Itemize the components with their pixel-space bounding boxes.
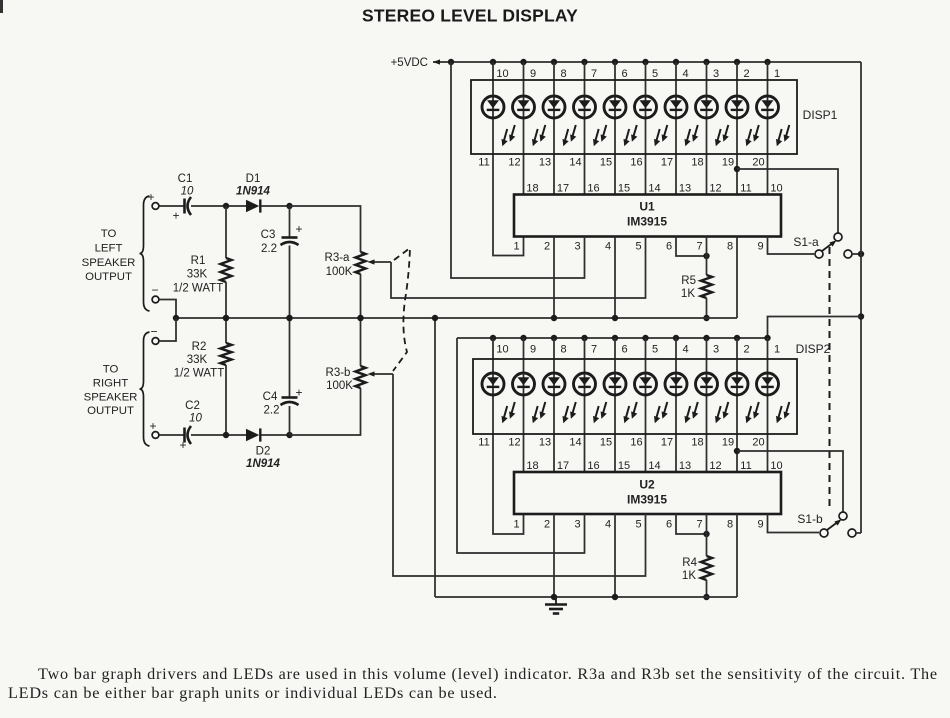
svg-text:12: 12 <box>709 183 721 195</box>
svg-text:−: − <box>150 325 157 339</box>
svg-text:15: 15 <box>600 157 612 169</box>
svg-text:19: 19 <box>722 157 734 169</box>
wire left + input to C1 <box>159 205 184 207</box>
wire DISP2 column 5 / pin 16 to U2 pin 14 <box>645 338 647 472</box>
wire U2 pin5 signal from R3-b wiper <box>393 374 646 576</box>
junction S1-a / +5V riser <box>858 251 864 257</box>
wire C3 node to R3-a top <box>290 206 361 252</box>
svg-text:20: 20 <box>752 437 764 449</box>
svg-text:Two bar graph drivers and LEDs: Two bar graph drivers and LEDs are used … <box>38 665 938 683</box>
capacitor C3 wire <box>289 206 291 238</box>
resistor R4 <box>701 556 712 580</box>
svg-text:2: 2 <box>544 519 550 531</box>
svg-text:SPEAKER: SPEAKER <box>84 392 138 404</box>
text block TO LEFT SPEAKER OUTPUT <box>82 228 136 283</box>
switch S1-a upper contact <box>834 233 842 241</box>
svg-text:100K: 100K <box>326 266 353 278</box>
svg-text:+: + <box>179 438 186 452</box>
wire DISP2 +5V bus <box>457 337 768 339</box>
junction C1 / R1 <box>223 203 229 209</box>
junction +5V bus / DISP1 anode col 8 <box>551 59 557 65</box>
junction R5 / ground bus <box>703 315 709 321</box>
svg-text:10: 10 <box>770 183 782 195</box>
svg-text:14: 14 <box>648 183 660 195</box>
svg-text:OUTPUT: OUTPUT <box>85 271 132 283</box>
wire U2 pin9 to S1-b pole <box>768 514 820 533</box>
wire U2 pin3 to DISP2 bus (left riser) <box>457 338 585 553</box>
junction DISP2 bus col 6 <box>612 335 618 341</box>
svg-text:DISP2: DISP2 <box>796 342 831 356</box>
junction +5V bus / DISP1 anode col 5 <box>642 59 648 65</box>
wire S1-a right contact to +5V riser <box>852 253 861 255</box>
wire U1 pin8 to ground bus end <box>736 237 738 319</box>
svg-text:19: 19 <box>722 437 734 449</box>
svg-text:15: 15 <box>600 437 612 449</box>
svg-text:10: 10 <box>496 68 508 80</box>
switch S1-a pole contact <box>815 250 823 258</box>
svg-text:OUTPUT: OUTPUT <box>87 405 134 417</box>
terminal right - input <box>152 338 159 345</box>
svg-text:10: 10 <box>770 460 782 472</box>
wire S1-b right contact to +5V riser <box>856 532 861 534</box>
svg-text:16: 16 <box>630 437 642 449</box>
svg-text:C3: C3 <box>261 229 276 241</box>
svg-text:11: 11 <box>478 437 489 449</box>
junction DISP2 bus col 2 <box>734 335 740 341</box>
svg-text:+5VDC: +5VDC <box>391 57 428 69</box>
capacitor C2 <box>183 428 186 443</box>
diode D1 <box>246 200 259 212</box>
wire DISP2 pin19 to S1-b top contact <box>737 451 843 512</box>
junction +5V bus / DISP1 anode col 7 <box>581 59 587 65</box>
svg-text:2.2: 2.2 <box>264 405 280 417</box>
junction +5V bus / DISP1 anode col 10 <box>490 59 496 65</box>
junction +5V bus / DISP1 anode col 6 <box>612 59 618 65</box>
svg-text:8: 8 <box>560 68 566 80</box>
svg-text:TO: TO <box>103 364 119 376</box>
svg-text:3: 3 <box>574 241 580 253</box>
junction DISP2 bus col 5 <box>642 335 648 341</box>
wire DISP1 column 7 / pin 14 to U1 pin 16 <box>584 62 586 195</box>
pin numbers U1 bottom (1..9) <box>513 241 763 253</box>
LED DISP2-2 <box>513 373 546 423</box>
svg-text:17: 17 <box>557 460 569 472</box>
wire +5V top bus <box>433 61 861 63</box>
svg-text:33K: 33K <box>187 354 208 366</box>
switch S1-b pole contact <box>820 529 828 537</box>
wire DISP1 column 4 / pin 17 to U1 pin 13 <box>675 62 677 195</box>
junction DISP2 bus col 9 <box>520 335 526 341</box>
switch S1-a right contact <box>844 250 852 258</box>
wire C4 node to R3-b bottom <box>290 388 361 435</box>
capacitor C4 wire <box>289 318 291 398</box>
svg-text:9: 9 <box>757 519 763 531</box>
wire right + input to C2 <box>159 434 184 436</box>
wire DISP2 column 6 / pin 15 to U2 pin 15 <box>614 338 616 472</box>
svg-text:10: 10 <box>496 344 508 356</box>
junction R3-a / common bus <box>357 315 363 321</box>
junction common / ground riser <box>432 315 438 321</box>
svg-text:+: + <box>149 419 156 433</box>
junction DISP2 bus col 10 <box>490 335 496 341</box>
resistor R1 <box>225 206 227 258</box>
IC U2 outline <box>514 472 781 514</box>
junction DISP2 bus col 1 <box>764 335 770 341</box>
wire U2 pin4 to ground bus <box>614 514 616 597</box>
junction DISP2 pin 19 / S1-b feed <box>734 448 740 454</box>
svg-text:9: 9 <box>530 344 536 356</box>
junction U2 pin7 / pin6 / R4 <box>703 531 709 537</box>
wire D1 to C3 node <box>261 205 290 207</box>
wire DISP1 pin19 to S1-a top contact <box>737 169 838 233</box>
LED DISP1-1 <box>482 96 515 146</box>
svg-text:IM3915: IM3915 <box>627 215 667 229</box>
svg-text:12: 12 <box>508 437 520 449</box>
svg-text:1: 1 <box>513 241 519 253</box>
brace right channel <box>140 332 150 446</box>
text block TO RIGHT SPEAKER OUTPUT <box>84 364 138 418</box>
wire U1 pin4 to ground bus <box>614 237 616 319</box>
LED DISP1-8 <box>696 96 729 146</box>
svg-text:2: 2 <box>544 241 550 253</box>
svg-text:5: 5 <box>652 344 658 356</box>
svg-text:10: 10 <box>181 186 194 198</box>
capacitor C4 <box>282 396 298 399</box>
svg-text:−: − <box>151 283 158 297</box>
wire U1 pin6 to pin7 <box>676 237 707 257</box>
svg-text:R2: R2 <box>192 341 207 353</box>
svg-text:1N914: 1N914 <box>246 458 280 470</box>
svg-text:20: 20 <box>752 157 764 169</box>
corner scan mark <box>0 0 3 13</box>
svg-text:14: 14 <box>648 460 660 472</box>
switch S1-b arm <box>827 521 839 530</box>
svg-text:RIGHT: RIGHT <box>93 378 128 390</box>
svg-text:+: + <box>295 386 302 400</box>
svg-text:18: 18 <box>691 157 703 169</box>
svg-text:18: 18 <box>526 183 538 195</box>
wire +5V right riser <box>860 62 862 533</box>
svg-text:LEDs can be either bar graph u: LEDs can be either bar graph units or in… <box>8 684 498 702</box>
junction DISP2 bus col 7 <box>581 335 587 341</box>
svg-text:10: 10 <box>189 413 202 425</box>
svg-text:5: 5 <box>635 519 641 531</box>
svg-text:U2: U2 <box>639 478 655 492</box>
svg-text:STEREO LEVEL DISPLAY: STEREO LEVEL DISPLAY <box>362 6 578 26</box>
svg-text:1/2 WATT: 1/2 WATT <box>173 283 223 295</box>
wire U2 pin7 lead <box>706 514 708 556</box>
junction R1 / common bus <box>223 315 229 321</box>
svg-text:13: 13 <box>679 183 691 195</box>
svg-text:S1-b: S1-b <box>797 512 823 526</box>
LED DISP2-1 <box>482 373 515 423</box>
wire DISP2 column 1 / pin 20 to U2 pin 10 <box>767 338 769 472</box>
svg-text:TO: TO <box>101 228 117 240</box>
svg-text:1: 1 <box>774 68 780 80</box>
wire DISP2 column 2 / pin 19 to U2 pin 11 <box>736 338 738 472</box>
wire DISP2 column 9 / pin 12 to U2 pin 18 <box>523 338 525 472</box>
junction +5V bus / DISP1 anode col 3 <box>703 59 709 65</box>
svg-text:R3-b: R3-b <box>326 367 351 379</box>
wire right - input to common <box>159 318 176 341</box>
svg-text:LEFT: LEFT <box>95 243 123 255</box>
LED DISP1-10 <box>757 96 790 146</box>
LED DISP2-8 <box>696 373 729 423</box>
svg-text:4: 4 <box>682 344 688 356</box>
svg-text:9: 9 <box>757 241 763 253</box>
wire U2 pin6 to pin7 <box>676 514 707 534</box>
junction C3 / common bus <box>286 315 292 321</box>
wire DISP2 column 8 / pin 13 to U2 pin 17 <box>553 338 555 472</box>
switch S1-a arm <box>822 242 834 251</box>
junction common / U1 pin2 <box>551 315 557 321</box>
svg-text:C2: C2 <box>185 400 200 412</box>
svg-text:12: 12 <box>709 460 721 472</box>
junction U1 pin7 / pin6 / R5 <box>703 253 709 259</box>
LED DISP2-10 <box>757 373 790 423</box>
LED DISP1-6 <box>635 96 668 146</box>
svg-text:17: 17 <box>557 183 569 195</box>
LED DISP2-7 <box>665 373 698 423</box>
svg-text:18: 18 <box>526 460 538 472</box>
wire DISP1 column 2 / pin 19 to U1 pin 11 <box>736 62 738 195</box>
svg-text:8: 8 <box>727 519 733 531</box>
svg-text:6: 6 <box>666 241 672 253</box>
svg-text:DISP1: DISP1 <box>803 108 838 122</box>
svg-text:33K: 33K <box>187 269 208 281</box>
wire DISP1 column 6 / pin 15 to U1 pin 15 <box>614 62 616 195</box>
svg-text:+: + <box>172 209 179 223</box>
svg-text:2.2: 2.2 <box>261 243 277 255</box>
LED DISP1-3 <box>543 96 576 146</box>
svg-text:16: 16 <box>587 460 599 472</box>
junction D1 / C3 <box>286 203 292 209</box>
svg-text:2: 2 <box>743 68 749 80</box>
wire U1 pin7 lead <box>706 237 708 276</box>
pin numbers DISP1 bottom (11..20) <box>478 157 764 169</box>
svg-text:S1-a: S1-a <box>793 235 819 249</box>
svg-text:3: 3 <box>574 519 580 531</box>
svg-text:SPEAKER: SPEAKER <box>82 257 136 269</box>
junction +5V riser / DISP2 feed <box>858 313 864 319</box>
LED DISP1-7 <box>665 96 698 146</box>
svg-text:R1: R1 <box>191 255 206 267</box>
svg-text:13: 13 <box>539 437 551 449</box>
svg-text:15: 15 <box>618 460 630 472</box>
wire C2 to D2 <box>191 434 246 436</box>
svg-text:16: 16 <box>587 183 599 195</box>
svg-text:C4: C4 <box>263 391 278 403</box>
display DISP2 outline <box>473 359 797 434</box>
svg-text:1K: 1K <box>681 288 695 300</box>
display DISP1 outline <box>471 80 797 154</box>
wire left - input to common <box>159 300 176 319</box>
svg-text:16: 16 <box>630 157 642 169</box>
wire DISP1 column 10 (pin 11) to U1 pin 1 <box>493 62 524 256</box>
resistor R5 <box>701 275 712 298</box>
wire U2 pin2 to ground bus <box>553 514 555 597</box>
LED DISP1-9 <box>726 96 759 146</box>
capacitor C3 <box>282 236 298 239</box>
svg-text:7: 7 <box>696 519 702 531</box>
svg-text:D2: D2 <box>256 446 271 458</box>
wire DISP1 column 5 / pin 16 to U1 pin 14 <box>645 62 647 195</box>
LED DISP2-4 <box>574 373 607 423</box>
IC U1 outline <box>514 195 781 237</box>
svg-text:7: 7 <box>591 68 597 80</box>
svg-text:6: 6 <box>666 519 672 531</box>
svg-text:15: 15 <box>618 183 630 195</box>
terminal left + input <box>152 203 159 210</box>
svg-text:17: 17 <box>661 437 673 449</box>
wire DISP2 column 3 / pin 18 to U2 pin 12 <box>706 338 708 472</box>
svg-text:IM3915: IM3915 <box>627 493 667 507</box>
wire ground bus riser to input common <box>434 318 436 597</box>
wire DISP2 column 4 / pin 17 to U2 pin 13 <box>675 338 677 472</box>
svg-text:18: 18 <box>691 437 703 449</box>
junction DISP2 bus col 4 <box>673 335 679 341</box>
wire input common bus <box>176 317 737 319</box>
svg-text:12: 12 <box>508 157 520 169</box>
svg-text:3: 3 <box>713 344 719 356</box>
potentiometer R3-b element <box>356 366 366 388</box>
wire DISP1 column 8 / pin 13 to U1 pin 17 <box>553 62 555 195</box>
wire U1 pin2 to ground bus <box>553 237 555 319</box>
svg-text:8: 8 <box>560 344 566 356</box>
svg-text:11: 11 <box>478 157 489 169</box>
svg-text:D1: D1 <box>246 173 261 185</box>
wire DISP1 column 3 / pin 18 to U1 pin 12 <box>706 62 708 195</box>
svg-text:8: 8 <box>727 241 733 253</box>
junction C2 / R2 <box>223 432 229 438</box>
svg-text:C1: C1 <box>178 173 193 185</box>
junction R3-b / common bus <box>357 315 363 321</box>
junction +5V bus / DISP1 anode col 4 <box>673 59 679 65</box>
pin numbers U2 bottom (1..9) <box>513 519 763 531</box>
junction D2 / C4 <box>286 432 292 438</box>
svg-text:1: 1 <box>774 344 780 356</box>
svg-text:5: 5 <box>635 241 641 253</box>
svg-text:6: 6 <box>621 344 627 356</box>
pin numbers DISP1 top (10..1) <box>496 68 780 80</box>
junction R4 / ground bus <box>703 594 709 600</box>
junction DISP2 bus col 3 <box>703 335 709 341</box>
svg-text:7: 7 <box>591 344 597 356</box>
LED DISP1-5 <box>604 96 637 146</box>
pin numbers U2 top (18..10) <box>526 460 782 472</box>
junction +5V bus / DISP1 anode col 1 <box>764 59 770 65</box>
pin numbers DISP2 bottom (11..20) <box>478 437 764 449</box>
svg-text:R3-a: R3-a <box>325 252 351 264</box>
potentiometer R3-a element <box>356 252 366 274</box>
svg-text:5: 5 <box>652 68 658 80</box>
pin numbers DISP2 top (10..1) <box>496 344 780 356</box>
switch S1-b right contact <box>848 529 856 537</box>
svg-text:1N914: 1N914 <box>236 186 270 198</box>
capacitor C1 <box>183 199 186 214</box>
wire DISP1 column 1 / pin 20 to U1 pin 10 <box>767 62 769 195</box>
junction +5V bus / DISP1 anode col 2 <box>734 59 740 65</box>
wire U1 pin5 signal from R3-a wiper <box>391 237 646 299</box>
junction R2 / common bus <box>223 315 229 321</box>
junction common / U1 pin4 <box>612 315 618 321</box>
svg-text:17: 17 <box>661 157 673 169</box>
svg-text:11: 11 <box>740 183 751 195</box>
LED DISP2-6 <box>635 373 668 423</box>
wire ground bus <box>435 596 737 598</box>
wire DISP2 column 10 (pin 11) to U2 pin 1 <box>493 338 524 534</box>
LED DISP2-5 <box>604 373 637 423</box>
svg-text:3: 3 <box>713 68 719 80</box>
svg-text:11: 11 <box>740 460 751 472</box>
terminal right + input <box>152 432 159 439</box>
diode D2 <box>246 429 259 441</box>
pin numbers U1 top (18..10) <box>526 183 782 195</box>
svg-text:R4: R4 <box>682 557 697 569</box>
junction DISP1 pin 19 / S1-a feed <box>734 166 740 172</box>
junction input commons <box>173 315 179 321</box>
svg-text:4: 4 <box>605 519 611 531</box>
mechanical link S1 (dashed) <box>829 247 831 508</box>
junction U2 pin2 / ground <box>551 594 557 600</box>
LED DISP2-9 <box>726 373 759 423</box>
svg-text:4: 4 <box>605 241 611 253</box>
resistor R2 <box>225 318 227 343</box>
wire DISP1 column 9 / pin 12 to U1 pin 18 <box>523 62 525 195</box>
junction +5V bus / DISP1 anode col 9 <box>520 59 526 65</box>
terminal left - input <box>152 296 159 303</box>
brace left channel <box>140 196 150 311</box>
ground symbol <box>555 597 557 604</box>
svg-text:2: 2 <box>743 344 749 356</box>
svg-text:7: 7 <box>696 241 702 253</box>
svg-text:13: 13 <box>539 157 551 169</box>
junction DISP2 bus col 8 <box>551 335 557 341</box>
junction C4 / common bus <box>286 315 292 321</box>
wire D2 to C4 node <box>261 434 290 436</box>
junction U2 pin4 / ground <box>612 594 618 600</box>
svg-text:U1: U1 <box>639 200 655 214</box>
svg-text:100K: 100K <box>326 380 353 392</box>
wire R4 to ground bus <box>706 580 708 597</box>
svg-text:13: 13 <box>679 460 691 472</box>
svg-text:1: 1 <box>513 519 519 531</box>
svg-text:9: 9 <box>530 68 536 80</box>
svg-text:R5: R5 <box>681 275 696 287</box>
svg-text:+: + <box>295 222 302 236</box>
LED DISP2-3 <box>543 373 576 423</box>
wire U1 pin9 to S1-a pole <box>768 237 815 255</box>
svg-text:14: 14 <box>569 437 581 449</box>
switch S1-b upper contact <box>839 512 847 520</box>
svg-text:6: 6 <box>621 68 627 80</box>
LED DISP1-2 <box>513 96 546 146</box>
mechanical link R3 ganged pots (dashed) <box>393 248 410 371</box>
wire U2 pin8 to ground bus end <box>736 514 738 597</box>
potentiometer R3-b wiper arrow <box>373 373 393 375</box>
wire +5V feed to DISP2 bus <box>768 317 862 339</box>
wire DISP2 column 7 / pin 14 to U2 pin 16 <box>584 338 586 472</box>
potentiometer R3-a wiper arrow <box>373 261 391 263</box>
wire R5 to ground bus <box>706 298 708 318</box>
wire U1 pin3 to +5V (left riser) <box>451 62 585 278</box>
svg-text:14: 14 <box>569 157 581 169</box>
LED DISP1-4 <box>574 96 607 146</box>
svg-text:1/2 WATT: 1/2 WATT <box>174 368 224 380</box>
svg-text:1K: 1K <box>682 570 696 582</box>
junction +5V bus / U1 pin3 feed <box>448 59 454 65</box>
svg-text:4: 4 <box>682 68 688 80</box>
